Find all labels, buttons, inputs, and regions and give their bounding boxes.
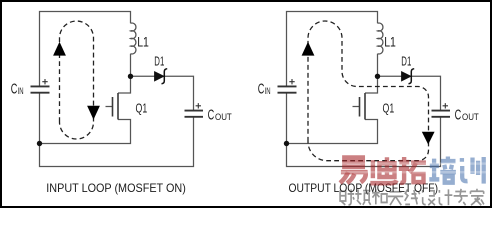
svg-text:INPUT LOOP (MOSFET ON): INPUT LOOP (MOSFET ON): [46, 181, 186, 195]
